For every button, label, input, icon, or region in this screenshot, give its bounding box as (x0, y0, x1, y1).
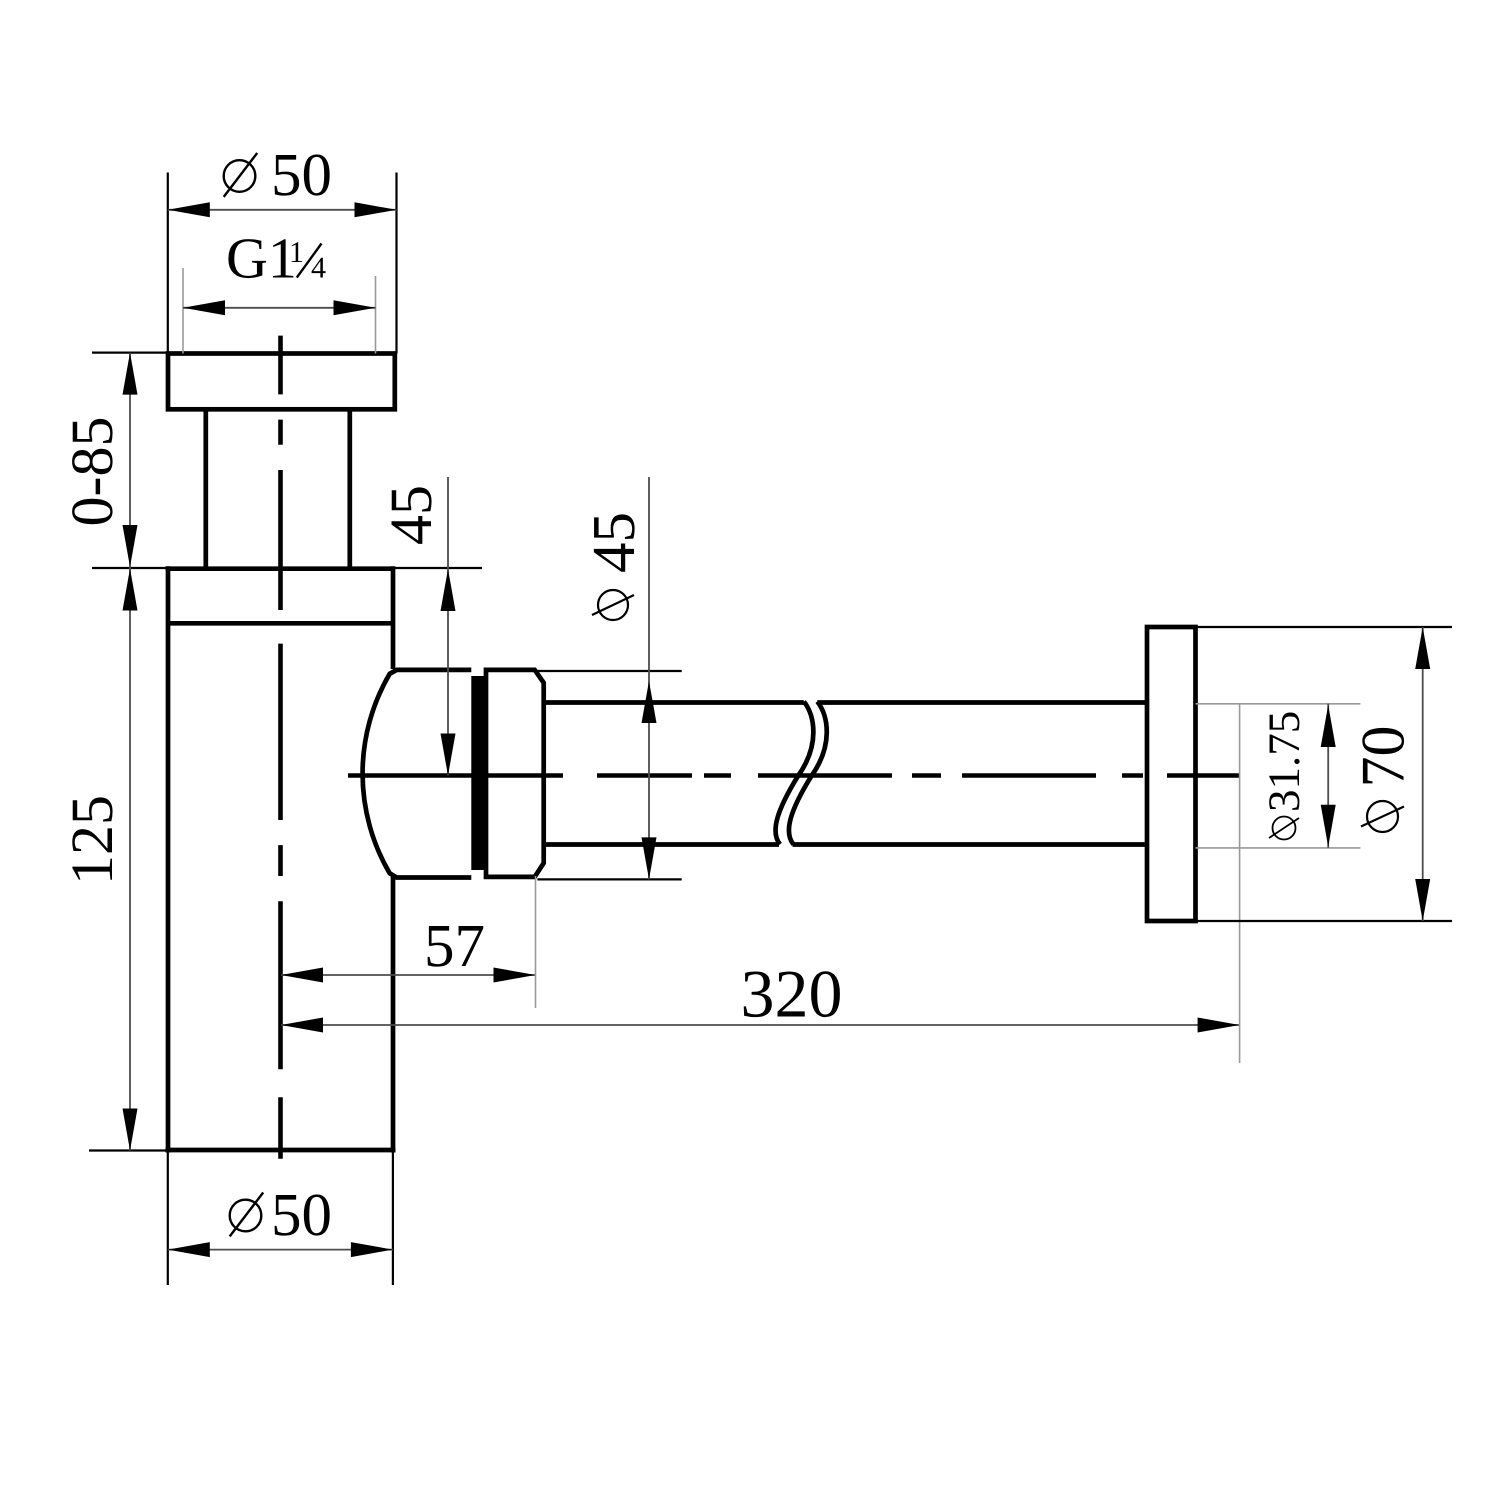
label 0-85 (rotated) (59, 417, 125, 527)
dimension line diameter 50 top (168, 209, 397, 211)
extension line diameter 50 top left (167, 173, 169, 354)
svg-text:4: 4 (311, 252, 326, 285)
label diameter 50 top (224, 153, 258, 197)
dimension line 0-85 / 125 (vertical at left) (129, 353, 131, 1151)
svg-text:G1: G1 (226, 226, 297, 291)
dimension line 57 (281, 974, 536, 976)
svg-text:45: 45 (378, 485, 444, 545)
extension line dia 70 top (1196, 626, 1453, 628)
svg-text:31.75: 31.75 (1259, 711, 1309, 812)
extension line dia 70 bottom (1196, 920, 1453, 922)
svg-text:320: 320 (741, 956, 843, 1032)
trap body right edge lower segment (391, 877, 396, 1153)
trap body left edge (166, 566, 171, 1152)
dimension line dia 45 (vertical, gray) (648, 477, 650, 879)
horizontal pipe lower line (left of break) (544, 842, 779, 847)
label dia 70 (rotated) (1350, 726, 1418, 833)
label 125 (rotated) (59, 795, 125, 885)
label dia 31.75 (rotated) (1259, 711, 1309, 840)
dimension line 320 (281, 1024, 1240, 1026)
extension line dia 31.75 top (gray) (1196, 703, 1361, 705)
extension line at collar top (right) (393, 567, 482, 569)
extension line G1-1/4 left (gray) (182, 268, 184, 354)
extension line 57 (gray vertical) (535, 876, 537, 1008)
extension line diameter 50 bottom left (167, 1151, 169, 1286)
tailpiece tube (neck) (203, 409, 208, 568)
extension line diameter 50 top right (395, 173, 397, 354)
pipe break curve left (776, 702, 814, 845)
dimension line dia 31.75 (gray vertical) (1327, 704, 1329, 848)
svg-text:50: 50 (271, 142, 332, 209)
horizontal pipe upper line (right of break) (817, 700, 1147, 705)
label dia 45 (rotated) (581, 512, 648, 620)
dimension line diameter 50 bottom (168, 1249, 393, 1251)
pipe break curve right (789, 702, 827, 845)
svg-text:50: 50 (271, 1182, 332, 1249)
extension line at body bottom (left) (89, 1149, 167, 1151)
extension line nut bottom (right of outlet, for dia 45) (537, 878, 681, 880)
horizontal pipe upper line (left of break) (544, 700, 804, 705)
extension line G1-1/4 right (gray) (375, 276, 377, 354)
horizontal pipe lower line (right of break) (793, 842, 1148, 847)
extension line dia 31.75 bottom (gray) (1196, 847, 1361, 849)
trap body collar top edge (166, 566, 394, 571)
trap body bottom edge (166, 1148, 396, 1153)
wall flange (1147, 627, 1196, 921)
label 45 (rotated) (378, 485, 444, 545)
extension line at tailpiece nut top (left) (92, 352, 168, 354)
outlet gasket (filled) (471, 676, 484, 870)
extension line diameter 50 bottom right (392, 1151, 394, 1286)
vertical centerline of trap body (278, 336, 283, 1159)
horizontal centerline of pipe (348, 773, 1240, 778)
svg-text:1: 1 (289, 236, 304, 269)
extension line nut top (right of outlet, for dia 45) (537, 670, 681, 672)
label diameter 50 bottom (230, 1193, 264, 1237)
dimension line G1-1/4 (183, 307, 376, 309)
trap body right edge upper segment (391, 566, 396, 669)
trap body collar bottom line (168, 621, 393, 626)
svg-text:0-85: 0-85 (59, 417, 125, 527)
extension line at collar top (left) (92, 567, 168, 569)
svg-text:125: 125 (59, 795, 125, 885)
svg-text:70: 70 (1350, 726, 1418, 788)
outlet compression nut (486, 670, 544, 877)
svg-text:45: 45 (581, 512, 648, 573)
extension line 320 (gray vertical at pipe end) (1239, 703, 1241, 1063)
dimension line 45 (vertical, gray) (447, 477, 449, 776)
outlet rounded cap (363, 670, 472, 878)
trap tailpiece nut (top flange) (168, 354, 395, 410)
dimension line dia 70 (vertical) (1422, 627, 1424, 921)
svg-text:57: 57 (424, 913, 485, 980)
